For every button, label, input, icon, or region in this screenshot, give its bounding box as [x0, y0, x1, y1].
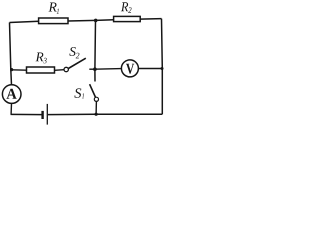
wire middle right: [95, 68, 122, 71]
label S2: [69, 47, 79, 58]
node right junction: [161, 67, 164, 70]
label R3: [36, 53, 47, 64]
resistor R3: [27, 67, 55, 73]
switch S2: [64, 58, 95, 72]
battery B1: [43, 104, 48, 125]
wire left: [10, 23, 12, 85]
wire ammeter to bottom: [10, 103, 12, 114]
voltmeter V: [121, 60, 138, 77]
wire top: [10, 19, 162, 23]
label S1: [74, 88, 84, 98]
wire V to right: [138, 68, 162, 70]
wire right: [161, 19, 164, 115]
node bottom junction: [95, 113, 98, 116]
label R1: [49, 3, 59, 14]
node middle junction: [93, 67, 97, 71]
wire R3 to S2: [55, 69, 65, 72]
switch S1: [90, 84, 99, 114]
wire middle left: [12, 69, 27, 71]
resistor R1: [39, 18, 68, 24]
node top junction: [94, 19, 98, 23]
ammeter A: [2, 85, 21, 104]
label R2: [121, 2, 132, 13]
node left junction: [10, 68, 13, 71]
wire bottom: [11, 113, 41, 116]
resistor R2: [114, 16, 141, 21]
wire middle vertical: [94, 20, 97, 81]
